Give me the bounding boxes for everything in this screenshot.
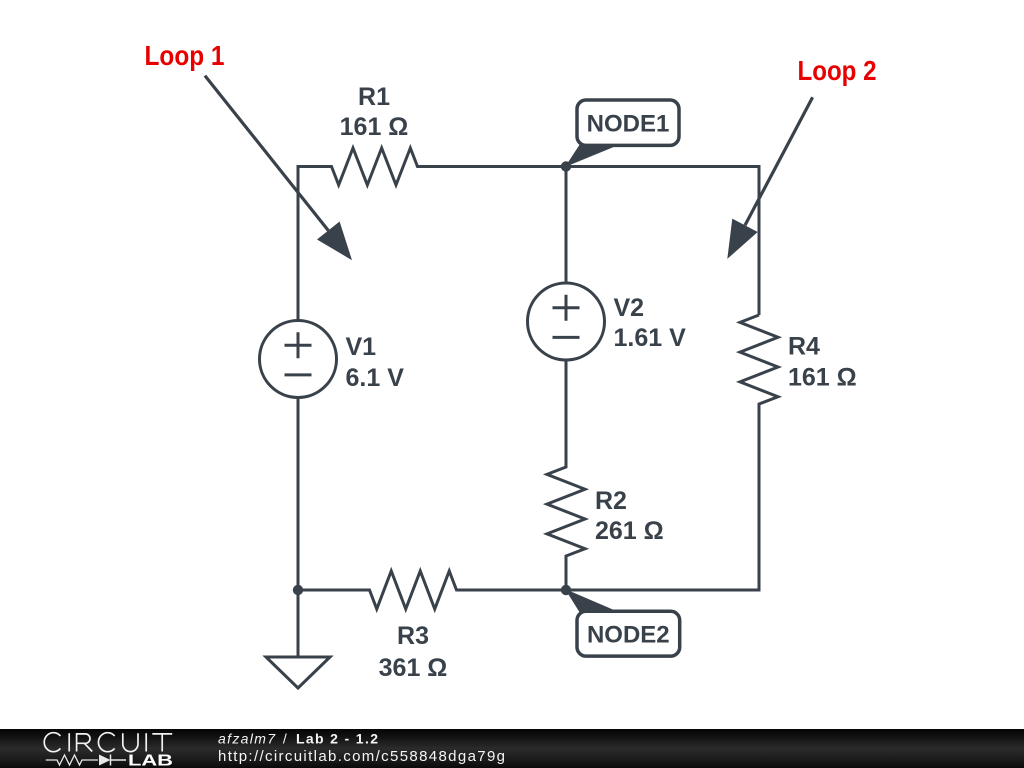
svg-text:R4: R4 [788,333,820,361]
svg-text:Loop 1: Loop 1 [145,40,225,71]
NODE1 flag box [577,100,679,145]
svg-text:NODE1: NODE1 [587,111,670,138]
svg-text:161 Ω: 161 Ω [340,113,409,141]
svg-text:161 Ω: 161 Ω [788,364,857,392]
node junction NODE2 dot [561,585,571,595]
annotation Loop 1 arrow line [205,76,328,231]
V2 plus sign [553,295,580,321]
node junction NODE1 dot [561,161,571,171]
ground [266,657,330,688]
V2 minus sign [553,336,580,339]
svg-text:Loop 2: Loop 2 [798,55,877,86]
V1 plus sign [285,332,312,358]
svg-text:1.61 V: 1.61 V [614,324,687,352]
svg-text:R3: R3 [397,622,429,650]
NODE2 flag tail [565,589,621,613]
annotation Loop 2 arrowhead [727,219,757,259]
svg-text:261 Ω: 261 Ω [595,517,664,545]
wire ground lead [297,590,300,657]
svg-text:R2: R2 [595,487,627,515]
footer logo CIRCUIT (thin stroke letters) [44,733,172,752]
NODE2 flag box [577,611,680,656]
wire middle vertical mid with resistor R2 body [547,360,585,590]
annotation Loop 1 arrowhead [317,222,352,261]
svg-text:6.1 V: 6.1 V [346,364,405,392]
voltage source V1 circle [260,321,337,398]
wire bottom with resistor R3 body [298,571,566,609]
footer logo doodle wire resistor [46,755,98,765]
annotation Loop 2 arrow line [745,97,813,225]
svg-text:http://circuitlab.com/c558848d: http://circuitlab.com/c558848dga79g [218,748,505,765]
wire middle vertical upper [565,167,568,284]
NODE1 flag tail [565,144,621,167]
svg-text:R1: R1 [358,83,390,111]
footer logo doodle diode [99,755,111,766]
V1 minus sign [285,373,312,376]
svg-text:V2: V2 [614,294,645,322]
node junction left-bottom dot [293,585,303,595]
footer bar [0,729,1024,768]
voltage source V2 circle [528,283,605,360]
svg-text:LAB: LAB [128,753,173,768]
svg-text:afzalm7 / Lab 2 - 1.2: afzalm7 / Lab 2 - 1.2 [218,730,378,746]
svg-text:NODE2: NODE2 [587,622,670,649]
svg-text:V1: V1 [346,333,377,361]
wire left vertical lower [297,398,300,591]
svg-text:361 Ω: 361 Ω [379,654,448,682]
resistor R4 body and bottom-right corner wire [566,315,778,590]
wire left-top-right run with resistor R1 body [298,148,759,321]
